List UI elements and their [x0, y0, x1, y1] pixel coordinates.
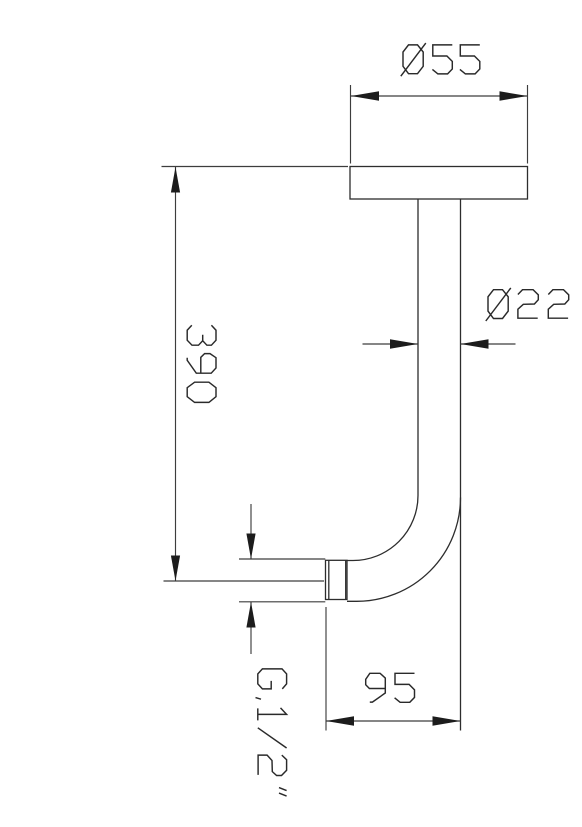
dim G1/2 extension line bottom — [239, 601, 325, 603]
flange (wall plate, top view rectangle) — [350, 167, 528, 200]
dim 390 dimension line — [175, 167, 177, 581]
dim Ø55 extension line right — [527, 85, 529, 164]
dim 95 dimension line — [326, 720, 461, 722]
dim 390 extension line bottom — [164, 580, 325, 582]
dim 95 extension line left — [325, 607, 327, 731]
fitting thread line right — [345, 560, 347, 599]
pipe right wall / colinear 95-dim extension — [460, 199, 462, 731]
threaded fitting G1/2 outline — [326, 560, 348, 599]
dim Ø55 extension line left — [350, 85, 352, 164]
text Ø55 — [401, 43, 426, 76]
dim G1/2 lower arrow tail — [250, 602, 252, 654]
pipe inner bend arc — [347, 496, 418, 561]
arrowhead 95 left (points left) — [326, 716, 354, 725]
dim G1/2 extension line top — [239, 558, 325, 560]
pipe left wall — [417, 199, 419, 496]
dim Ø55 dimension line — [351, 95, 528, 97]
arrowhead 390 top (points up) — [171, 167, 180, 193]
arrowhead Ø22 left (points right) — [390, 339, 418, 348]
arrowhead G1/2 upper (points down) — [246, 534, 255, 560]
text 95 — [366, 673, 386, 702]
arrowhead Ø22 right (points left) — [461, 339, 489, 348]
text Ø22 — [486, 288, 511, 321]
dim G1/2 upper arrow tail — [250, 504, 252, 559]
fitting thread line left — [328, 560, 330, 599]
dim Ø22 left arrow tail — [363, 343, 419, 345]
arrowhead Ø55 left — [351, 91, 379, 100]
arrowhead Ø55 right — [500, 91, 528, 100]
text 390 (rotated) — [187, 325, 216, 402]
arrowhead 390 bottom (points down) — [171, 556, 180, 582]
arrowhead G1/2 lower (points up) — [246, 602, 255, 628]
pipe outer bend arc — [347, 498, 461, 602]
text G,1/2 inch (rotated) — [256, 669, 287, 796]
arrowhead 95 right (points right) — [433, 716, 461, 725]
dim 390 extension line top — [162, 166, 349, 168]
dim Ø22 right arrow tail — [461, 343, 516, 345]
